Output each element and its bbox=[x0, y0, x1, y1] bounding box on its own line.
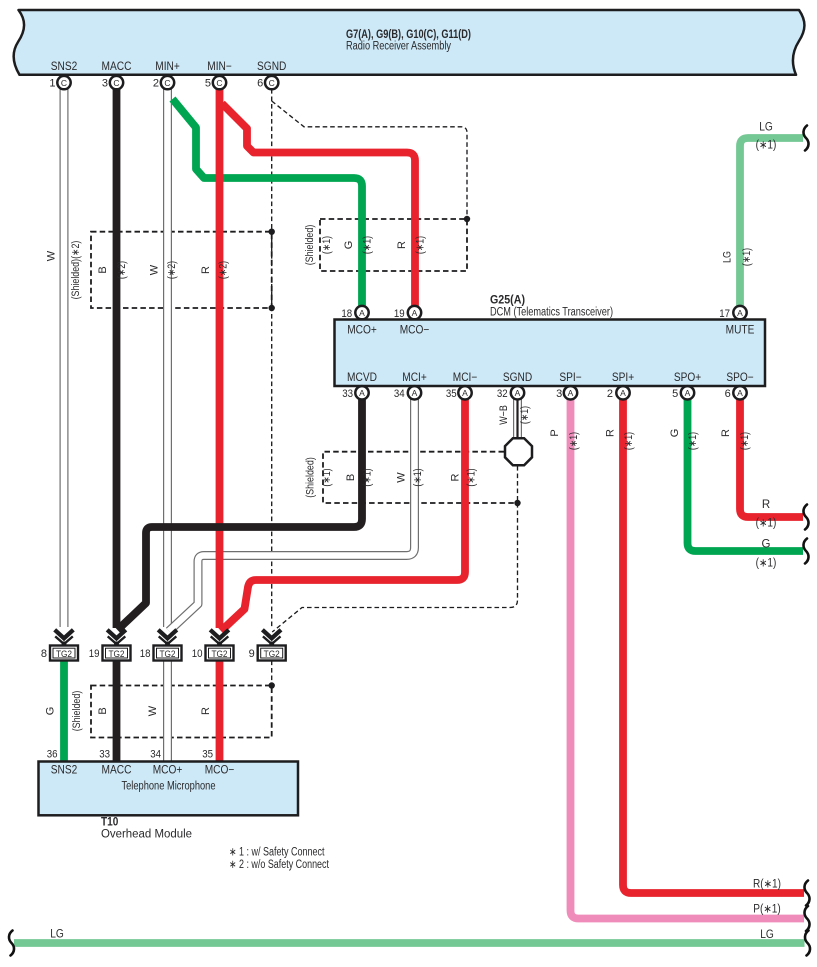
wire G MIN+ pin2 to DCM MCO+ 18 bbox=[173, 99, 363, 307]
svg-text:W: W bbox=[149, 264, 161, 275]
svg-text:36: 36 bbox=[47, 749, 58, 761]
svg-text:A: A bbox=[359, 388, 365, 398]
svg-text:34: 34 bbox=[394, 388, 405, 400]
wire R branch MIN- to DCM MCO- 19 bbox=[222, 104, 415, 307]
break P SPI- bbox=[804, 906, 809, 931]
svg-text:(∗1): (∗1) bbox=[321, 468, 333, 486]
svg-text:SPI−: SPI− bbox=[559, 372, 582, 384]
svg-text:G: G bbox=[762, 539, 771, 551]
shield box (Shielded) bottom bbox=[91, 686, 272, 738]
node shield left bottom bbox=[269, 305, 275, 311]
svg-text:6: 6 bbox=[725, 388, 731, 400]
break LG top right bbox=[803, 126, 808, 151]
svg-text:C: C bbox=[61, 78, 67, 88]
svg-text:A: A bbox=[568, 388, 574, 398]
svg-text:DCM (Telematics Transceiver): DCM (Telematics Transceiver) bbox=[490, 307, 613, 319]
svg-text:R: R bbox=[200, 266, 212, 274]
break LG bottom right bbox=[805, 931, 810, 956]
svg-text:19: 19 bbox=[89, 648, 100, 660]
svg-text:3: 3 bbox=[556, 388, 562, 400]
svg-text:MCO−: MCO− bbox=[400, 325, 430, 337]
svg-text:(∗1): (∗1) bbox=[756, 140, 777, 152]
svg-text:(∗1): (∗1) bbox=[756, 558, 777, 570]
pin 19 A bbox=[408, 306, 421, 319]
svg-text:(Shielded): (Shielded) bbox=[71, 691, 83, 732]
svg-text:A: A bbox=[685, 388, 691, 398]
wire B TG2 19 to microphone 33 bbox=[113, 661, 121, 763]
svg-text:W−B: W−B bbox=[498, 405, 510, 425]
svg-text:A: A bbox=[462, 388, 468, 398]
svg-text:SPO+: SPO+ bbox=[674, 372, 702, 384]
wire W MCI+ DCM 34 to TG2 18 bbox=[169, 399, 415, 631]
svg-text:T10: T10 bbox=[101, 817, 118, 829]
svg-text:W: W bbox=[147, 705, 159, 716]
svg-text:TG2: TG2 bbox=[108, 649, 124, 660]
svg-text:MACC: MACC bbox=[102, 765, 132, 777]
svg-text:(∗1): (∗1) bbox=[756, 518, 777, 530]
svg-text:C: C bbox=[164, 78, 170, 88]
svg-text:MCI+: MCI+ bbox=[402, 372, 427, 384]
svg-text:MCO+: MCO+ bbox=[153, 765, 183, 777]
svg-text:(Shielded): (Shielded) bbox=[304, 225, 316, 266]
wire LG bottom bbox=[14, 939, 805, 947]
svg-text:(Shielded)(∗2): (Shielded)(∗2) bbox=[70, 241, 82, 300]
connector 9 TG2 bbox=[249, 630, 286, 661]
wire W SNS2 pin1 to TG2 8 bbox=[60, 89, 69, 627]
svg-text:LG: LG bbox=[760, 929, 774, 941]
svg-text:G25(A): G25(A) bbox=[490, 295, 525, 307]
svg-text:TG2: TG2 bbox=[56, 649, 72, 660]
svg-text:B: B bbox=[97, 707, 109, 714]
pin 6 A bbox=[733, 386, 746, 399]
svg-text:G7(A), G9(B), G10(C), G11(D): G7(A), G9(B), G10(C), G11(D) bbox=[346, 29, 471, 41]
svg-text:B: B bbox=[345, 474, 357, 481]
node shield left top bbox=[269, 229, 275, 235]
svg-text:(∗1): (∗1) bbox=[568, 432, 580, 450]
svg-text:W: W bbox=[46, 250, 58, 261]
svg-text:C: C bbox=[269, 78, 275, 88]
svg-text:∗ 2 : w/o Safety Connect: ∗ 2 : w/o Safety Connect bbox=[229, 859, 330, 871]
pin 18 A bbox=[355, 306, 368, 319]
wire W TG2 18 to microphone 34 bbox=[163, 661, 172, 763]
svg-text:G: G bbox=[343, 241, 355, 250]
svg-text:W: W bbox=[396, 472, 408, 483]
svg-text:P(∗1): P(∗1) bbox=[753, 904, 781, 916]
connector 18 TG2 bbox=[140, 630, 182, 661]
svg-text:(∗1): (∗1) bbox=[466, 468, 478, 486]
svg-text:(∗1): (∗1) bbox=[739, 432, 751, 450]
pin 35 A bbox=[458, 386, 471, 399]
wire R TG2 10 to microphone 35 bbox=[216, 661, 224, 763]
pin 2 C bbox=[161, 76, 174, 89]
svg-text:33: 33 bbox=[342, 388, 353, 400]
svg-text:A: A bbox=[737, 388, 743, 398]
svg-text:R: R bbox=[450, 473, 462, 481]
svg-text:B: B bbox=[97, 266, 109, 273]
pin 6 C bbox=[265, 76, 278, 89]
svg-text:SNS2: SNS2 bbox=[51, 61, 78, 73]
svg-text:MCI−: MCI− bbox=[453, 372, 478, 384]
svg-text:10: 10 bbox=[192, 648, 203, 660]
node shield right top bbox=[464, 216, 470, 222]
wire shield drain below TG2 9 bbox=[271, 661, 273, 686]
node shield bottom box bbox=[269, 682, 275, 688]
svg-text:(∗1): (∗1) bbox=[362, 236, 374, 254]
svg-text:R: R bbox=[396, 241, 408, 249]
svg-text:5: 5 bbox=[205, 78, 211, 90]
wire W MIN+ pin2 to TG2 18 bbox=[163, 89, 172, 627]
svg-text:(∗1): (∗1) bbox=[741, 248, 753, 266]
connector 19 TG2 bbox=[89, 630, 131, 661]
svg-text:(∗1): (∗1) bbox=[415, 236, 427, 254]
node shield mid bottom bbox=[514, 500, 520, 506]
svg-text:Overhead Module: Overhead Module bbox=[101, 829, 192, 841]
svg-text:∗ 1 : w/ Safety Connect: ∗ 1 : w/ Safety Connect bbox=[229, 847, 325, 859]
pin 5 C bbox=[213, 76, 226, 89]
svg-text:MCO+: MCO+ bbox=[347, 325, 377, 337]
svg-text:2: 2 bbox=[153, 78, 159, 90]
svg-text:18: 18 bbox=[140, 648, 151, 660]
connector 8 TG2 bbox=[41, 630, 78, 661]
break R SPO- bbox=[803, 505, 808, 530]
shield box (Shielded)(*2) left bbox=[91, 232, 272, 308]
svg-text:P: P bbox=[549, 429, 561, 436]
svg-text:(Shielded): (Shielded) bbox=[305, 457, 317, 498]
svg-text:18: 18 bbox=[341, 308, 352, 320]
svg-text:R: R bbox=[762, 499, 770, 511]
svg-text:MCVD: MCVD bbox=[347, 372, 377, 384]
svg-text:(∗1): (∗1) bbox=[623, 432, 635, 450]
svg-text:A: A bbox=[515, 388, 521, 398]
wire R MCI- DCM 35 to TG2 10 bbox=[221, 399, 465, 631]
svg-text:19: 19 bbox=[394, 308, 405, 320]
pin 3 C bbox=[110, 76, 123, 89]
svg-text:MUTE: MUTE bbox=[726, 325, 755, 337]
pin 3 A bbox=[564, 386, 577, 399]
pin 32 A bbox=[511, 386, 524, 399]
svg-text:A: A bbox=[412, 308, 418, 318]
wire shield drain vertical from SGND pin 6 bbox=[271, 89, 273, 627]
svg-text:Radio Receiver Assembly: Radio Receiver Assembly bbox=[346, 41, 451, 53]
break R SPI+ bbox=[804, 881, 809, 906]
break LG bottom left bbox=[9, 931, 14, 956]
svg-text:SGND: SGND bbox=[257, 61, 286, 73]
svg-text:LG: LG bbox=[50, 929, 64, 941]
svg-text:SGND: SGND bbox=[503, 372, 532, 384]
wire R SPO- DCM 6 to right edge bbox=[740, 399, 803, 517]
svg-text:SPO−: SPO− bbox=[726, 372, 754, 384]
shield box (Shielded)(*1) mid below DCM bbox=[323, 452, 518, 503]
svg-text:A: A bbox=[359, 308, 365, 318]
svg-text:C: C bbox=[113, 78, 119, 88]
svg-text:R: R bbox=[720, 429, 732, 437]
svg-text:(∗2): (∗2) bbox=[116, 261, 128, 279]
svg-text:2: 2 bbox=[607, 388, 613, 400]
svg-text:TG2: TG2 bbox=[264, 649, 280, 660]
connector 10 TG2 bbox=[192, 630, 234, 661]
pin 17 A bbox=[733, 306, 746, 319]
svg-text:3: 3 bbox=[102, 78, 108, 90]
svg-text:(∗2): (∗2) bbox=[218, 261, 230, 279]
svg-text:9: 9 bbox=[249, 648, 255, 660]
svg-text:TG2: TG2 bbox=[211, 649, 227, 660]
svg-text:SPI+: SPI+ bbox=[612, 372, 635, 384]
svg-text:(∗1): (∗1) bbox=[321, 236, 333, 254]
svg-text:R: R bbox=[605, 429, 617, 437]
svg-text:MACC: MACC bbox=[102, 61, 132, 73]
svg-text:R(∗1): R(∗1) bbox=[753, 879, 781, 891]
svg-text:(∗1): (∗1) bbox=[687, 432, 699, 450]
svg-text:1: 1 bbox=[49, 78, 55, 90]
wire G SPO+ DCM 5 to right edge bbox=[688, 399, 804, 551]
wire B MCVD DCM 33 to TG2 19 bbox=[118, 399, 363, 630]
svg-text:A: A bbox=[412, 388, 418, 398]
wire shield drain branch to right shield box bbox=[272, 101, 467, 219]
svg-text:R: R bbox=[200, 707, 212, 715]
wire B MACC pin3 to TG2 19 bbox=[113, 89, 121, 628]
wire W-B SGND DCM 32 to octagon bbox=[513, 399, 522, 440]
svg-text:35: 35 bbox=[446, 388, 457, 400]
pin 1 C bbox=[57, 76, 70, 89]
svg-text:LG: LG bbox=[759, 122, 773, 134]
wire G TG2 8 to microphone 36 bbox=[60, 661, 68, 763]
break G SPO+ bbox=[803, 539, 808, 564]
wire R MIN- pin5 to TG2 10 bbox=[216, 89, 224, 628]
wire R SPI+ DCM 2 to bottom right bbox=[623, 399, 804, 893]
svg-text:Telephone Microphone: Telephone Microphone bbox=[122, 781, 216, 793]
svg-text:C: C bbox=[216, 78, 222, 88]
svg-text:8: 8 bbox=[41, 648, 47, 660]
svg-text:32: 32 bbox=[497, 388, 508, 400]
pin 5 A bbox=[681, 386, 694, 399]
svg-text:(∗1): (∗1) bbox=[362, 468, 374, 486]
svg-text:5: 5 bbox=[672, 388, 678, 400]
svg-text:A: A bbox=[737, 308, 743, 318]
svg-text:(∗1): (∗1) bbox=[412, 468, 424, 486]
svg-text:G: G bbox=[45, 707, 57, 716]
svg-text:17: 17 bbox=[719, 308, 730, 320]
svg-text:34: 34 bbox=[150, 749, 161, 761]
svg-text:(∗1): (∗1) bbox=[519, 406, 531, 424]
svg-text:G: G bbox=[669, 429, 681, 438]
svg-text:A: A bbox=[620, 388, 626, 398]
svg-text:LG: LG bbox=[722, 251, 734, 263]
wire LG top right to DCM MUTE 17 bbox=[740, 138, 803, 307]
wire shield drain from octagon bbox=[517, 466, 519, 503]
svg-text:MIN+: MIN+ bbox=[155, 61, 180, 73]
shield box (Shielded)(*1) right bbox=[320, 219, 467, 271]
wire P SPI- DCM 3 to bottom right bbox=[571, 399, 805, 919]
pin 2 A bbox=[616, 386, 629, 399]
svg-text:SNS2: SNS2 bbox=[51, 765, 78, 777]
svg-text:MCO−: MCO− bbox=[205, 765, 235, 777]
svg-text:33: 33 bbox=[99, 749, 110, 761]
svg-text:6: 6 bbox=[257, 78, 263, 90]
svg-text:(∗2): (∗2) bbox=[166, 261, 178, 279]
svg-text:TG2: TG2 bbox=[159, 649, 175, 660]
svg-text:35: 35 bbox=[202, 749, 213, 761]
pin 34 A bbox=[408, 386, 421, 399]
svg-text:MIN−: MIN− bbox=[207, 61, 232, 73]
pin 33 A bbox=[355, 386, 368, 399]
